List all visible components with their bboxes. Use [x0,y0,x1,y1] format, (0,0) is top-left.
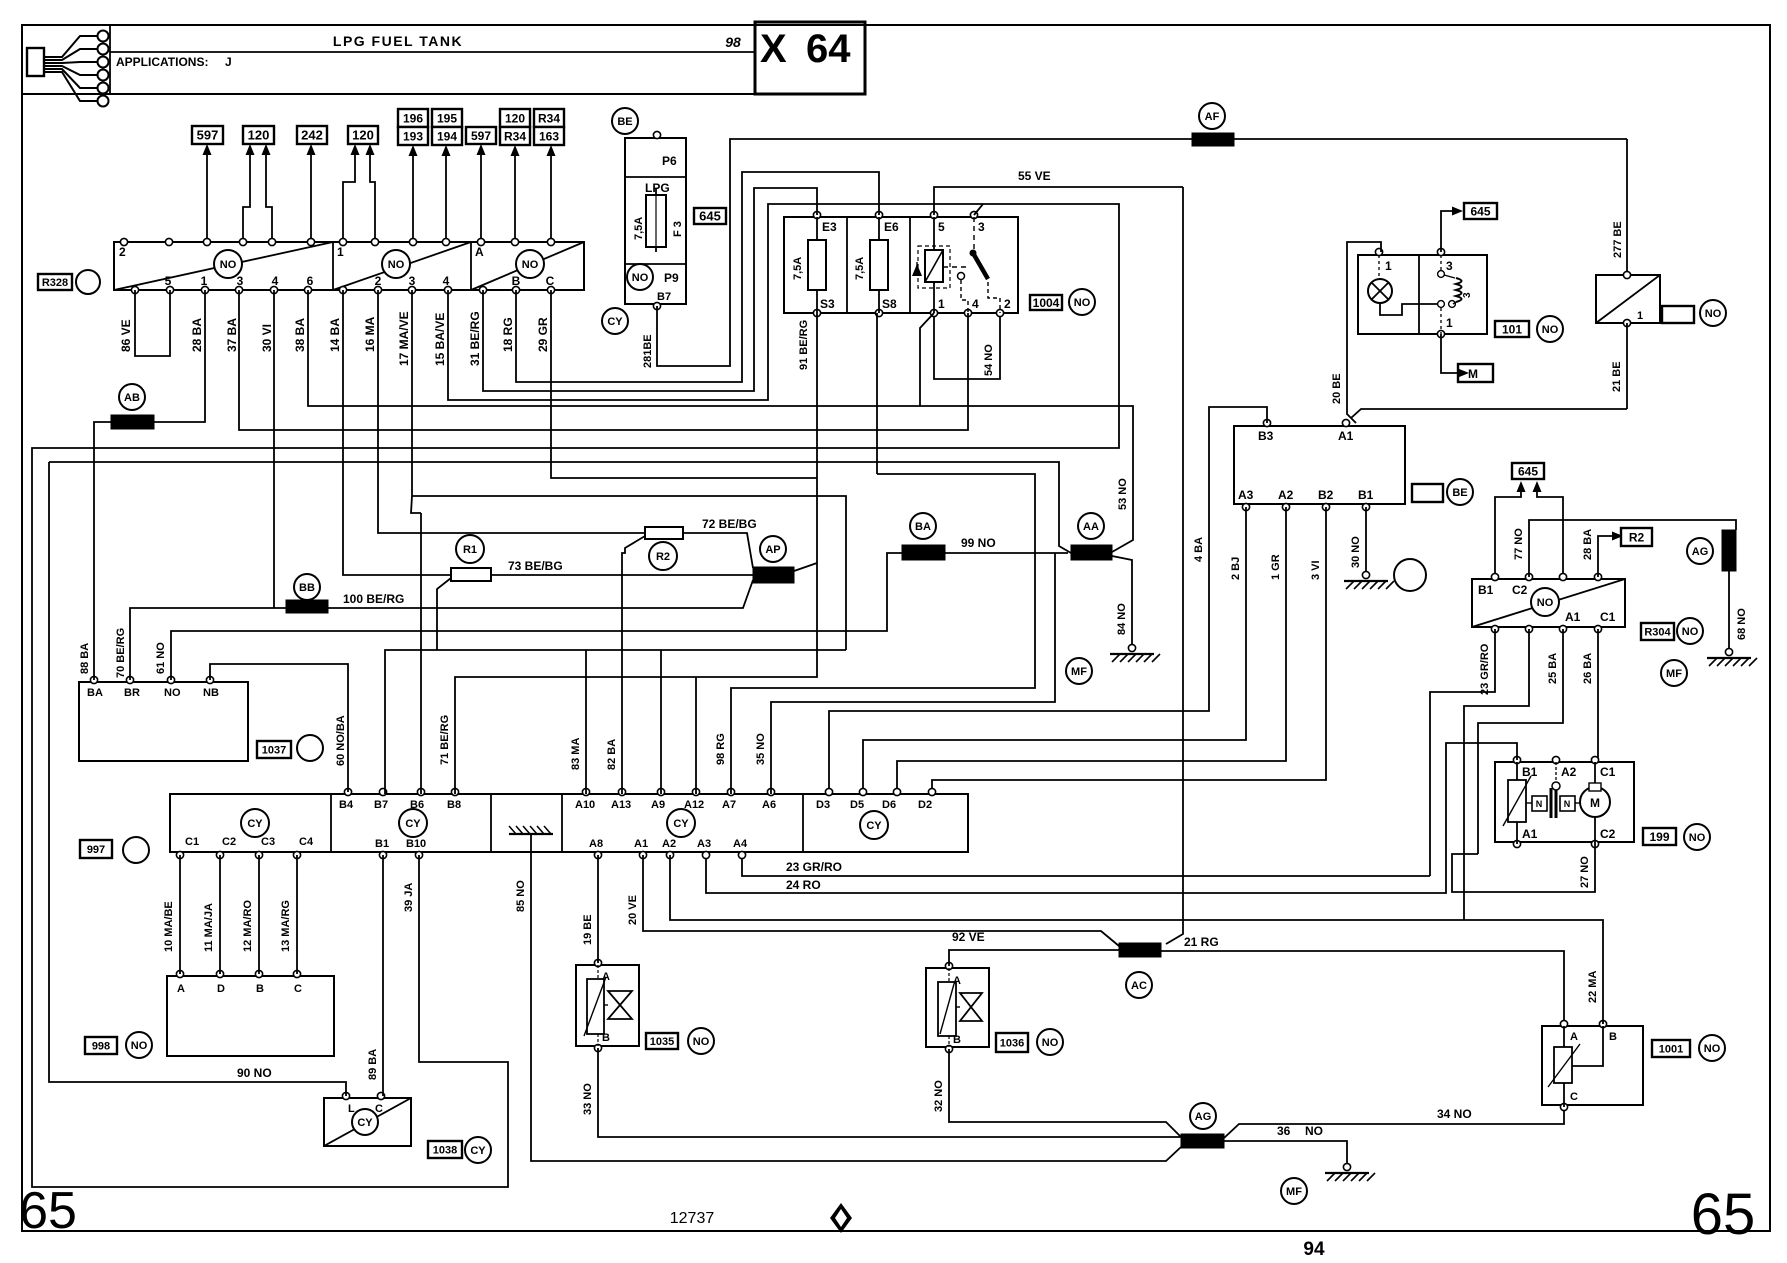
symbol circle CY [667,809,695,837]
wire [44,36,97,57]
symbol circle NO [1537,316,1563,342]
svg-text:27 NO: 27 NO [1579,856,1591,888]
svg-text:12737: 12737 [670,1210,715,1227]
svg-text:A3: A3 [697,838,711,850]
symbol circle NO [627,264,653,290]
svg-text:92 VE: 92 VE [952,930,985,944]
svg-text:N: N [1536,799,1543,809]
pin [825,788,832,795]
svg-text:A4: A4 [733,838,748,850]
symbol circle AF [1199,103,1225,129]
wire 23 GR/RO drop [1430,629,1495,876]
symbol circle BE [1447,479,1473,505]
svg-text:C1: C1 [1600,765,1616,779]
ground [1362,571,1369,578]
svg-text:60 NO/BA: 60 NO/BA [335,715,347,766]
svg-text:B4: B4 [339,799,354,811]
svg-text:B3: B3 [1258,429,1274,443]
svg-text:83 MA: 83 MA [570,738,582,770]
wire segment [816,217,818,240]
wire B7 to bus [385,650,846,794]
svg-text:1: 1 [337,245,344,259]
arrow [262,144,271,155]
pin [1375,248,1382,255]
pin [618,788,625,795]
pin [1560,1103,1567,1110]
pin [653,131,660,138]
svg-text:120: 120 [505,111,525,125]
svg-text:B7: B7 [374,799,388,811]
wire [670,855,1603,1024]
svg-text:AF: AF [1205,111,1220,123]
wire [742,855,1430,876]
box [114,242,584,290]
wire [731,474,1035,794]
svg-text:AB: AB [124,392,140,404]
ref box 193 [398,127,428,145]
pin [767,788,774,795]
svg-text:64: 64 [806,27,851,71]
svg-text:AG: AG [1195,1111,1212,1123]
pin [1525,573,1532,580]
wire [897,507,1286,794]
svg-text:82 BA: 82 BA [606,739,618,770]
wire segment [179,855,181,974]
pin [1559,625,1566,632]
wire A12 [695,677,697,794]
svg-text:100 BE/RG: 100 BE/RG [343,592,404,606]
symbol circle NO [214,250,242,278]
ref box 199 [1643,828,1676,845]
svg-text:B6: B6 [410,799,424,811]
wire [1598,536,1612,577]
svg-text:61 NO: 61 NO [155,642,167,674]
svg-text:13 MA/RG: 13 MA/RG [280,900,292,952]
svg-text:65: 65 [19,1182,77,1240]
pin [1594,573,1601,580]
svg-text:A8: A8 [589,838,603,850]
arrow [307,144,316,155]
svg-text:B10: B10 [406,838,426,850]
svg-text:B8: B8 [447,799,461,811]
ref box R328 [38,274,72,290]
circle MF [1661,660,1687,686]
wire [308,290,1133,552]
pin [594,851,601,858]
motor M inside 199 [1580,787,1610,817]
symbol circle BA [910,513,936,539]
svg-text:72 BE/BG: 72 BE/BG [702,517,757,531]
wire segment [110,51,755,53]
svg-text:23 GR/RO: 23 GR/RO [786,860,842,874]
wire [411,496,421,513]
svg-text:4 BA: 4 BA [1193,537,1205,562]
svg-text:LPG FUEL TANK: LPG FUEL TANK [333,33,463,49]
shielding [1722,530,1736,571]
wire [448,204,983,400]
arrow [366,144,375,155]
wire segment [925,250,943,282]
svg-text:120: 120 [248,128,270,143]
wire [483,188,817,391]
pin [666,851,673,858]
ref box R34 [534,109,564,127]
svg-text:28 BA: 28 BA [1582,529,1594,560]
svg-text:5: 5 [938,220,945,234]
pin [1342,419,1349,426]
wire segment [412,153,414,242]
wire [210,664,348,792]
svg-text:E6: E6 [884,220,899,234]
pin [702,851,709,858]
pin [374,286,381,293]
box [1542,1026,1643,1105]
lamp symbol [1368,279,1392,303]
box [587,979,604,1034]
wire [343,152,355,242]
svg-text:C3: C3 [261,836,275,848]
pin [1491,573,1498,580]
symbol circle AP [760,536,786,562]
svg-text:98: 98 [725,34,741,50]
ref box 645 [694,208,726,224]
pin [90,676,97,683]
svg-text:28 BA: 28 BA [190,318,204,352]
symbol circle R2 [649,542,677,570]
wire [44,66,97,75]
wire [44,62,97,63]
svg-text:AA: AA [1083,521,1099,533]
svg-text:32 NO: 32 NO [933,1080,945,1112]
svg-text:NO: NO [632,272,649,284]
svg-text:C: C [375,1103,383,1115]
wire [243,152,250,242]
svg-text:19 BE: 19 BE [582,914,594,945]
wire segment [109,25,111,94]
symbol circle NO [688,1028,714,1054]
svg-text:R328: R328 [42,277,68,289]
svg-text:NO: NO [1305,1124,1323,1138]
wire segment [206,152,208,242]
svg-text:3: 3 [1462,292,1473,298]
wire segment [1575,802,1581,804]
ref box 163 [534,127,564,145]
pin [293,851,300,858]
svg-text:281BE: 281BE [642,334,654,368]
box [755,22,865,94]
pin [653,302,660,309]
pin [408,286,415,293]
wire segment [584,977,606,1036]
arrow [246,144,255,155]
svg-text:199: 199 [1649,830,1669,844]
wire segment [258,855,260,974]
box [22,25,755,94]
circle MF bottom [1281,1178,1307,1204]
svg-text:2 BJ: 2 BJ [1230,557,1242,580]
wire segment [940,984,954,1034]
svg-text:NO: NO [1705,308,1722,320]
pin [996,309,1003,316]
arrow [1533,481,1542,492]
svg-text:645: 645 [1518,464,1538,478]
svg-text:R1: R1 [463,544,477,556]
box [646,195,666,247]
pin [216,851,223,858]
svg-text:A1: A1 [634,838,648,850]
svg-text:BE: BE [1452,487,1467,499]
box [870,240,888,290]
wire segment [916,262,918,276]
svg-text:APPLICATIONS:: APPLICATIONS: [116,55,208,69]
symbol circle CY [241,809,269,837]
svg-text:D: D [217,983,225,995]
box [938,982,956,1036]
box [1560,796,1575,811]
svg-text:A: A [475,245,484,259]
svg-text:P6: P6 [662,154,677,168]
svg-text:30 VI: 30 VI [260,324,274,352]
wire segment [219,855,221,974]
svg-text:1004: 1004 [1033,296,1060,310]
box [645,527,683,539]
svg-text:33 NO: 33 NO [582,1083,594,1115]
svg-text:1035: 1035 [650,1036,674,1048]
svg-text:21 RG: 21 RG [1184,935,1219,949]
arrow [511,145,520,156]
svg-text:D3: D3 [816,799,830,811]
wire segment [1440,308,1442,334]
wire segment [514,153,516,242]
svg-text:23 GR/RO: 23 GR/RO [1479,643,1491,695]
wire [49,462,346,1096]
wire segment [1548,1044,1580,1087]
svg-text:53 NO: 53 NO [1117,478,1129,510]
box [1472,579,1625,627]
wire [1380,303,1437,315]
pin [206,676,213,683]
box [1554,1047,1572,1083]
svg-text:NO: NO [1074,297,1091,309]
wire [1161,951,1564,1024]
svg-text:30 NO: 30 NO [1350,536,1362,568]
svg-text:A: A [177,983,185,995]
svg-text:85 NO: 85 NO [515,880,527,912]
pin [339,238,346,245]
svg-text:120: 120 [352,128,374,143]
pin [304,286,311,293]
internal ground in strip [509,833,553,835]
svg-text:15 BA/VE: 15 BA/VE [433,313,447,366]
pin [813,309,820,316]
svg-text:18 RG: 18 RG [501,317,515,352]
svg-text:N: N [1564,799,1571,809]
pin [970,211,977,218]
wire segment [1372,283,1388,299]
wire B6 [420,513,422,794]
wire segment [1503,776,1531,826]
svg-text:26 BA: 26 BA [1582,653,1594,684]
svg-text:38 BA: 38 BA [293,318,307,352]
ref box 645 [1512,463,1544,479]
wire segment [948,1036,950,1047]
wire [1452,844,1595,892]
pin [415,851,422,858]
svg-text:A1: A1 [1338,429,1354,443]
pin [1282,503,1289,510]
svg-text:B1: B1 [1358,488,1374,502]
wire [239,290,968,430]
wire [622,536,645,794]
pin [727,788,734,795]
wire segment [846,217,848,313]
wire A9 [660,650,662,794]
svg-text:B: B [256,983,264,995]
pin [1623,271,1630,278]
svg-text:A6: A6 [762,799,776,811]
symbol circle AG [1687,538,1713,564]
svg-text:A2: A2 [662,838,676,850]
wire [328,580,753,608]
svg-text:77 NO: 77 NO [1513,528,1525,560]
svg-text:NO: NO [1682,626,1699,638]
pin [875,211,882,218]
wire segment [490,794,492,852]
arrow [477,144,486,155]
wire [657,139,1192,366]
wire [44,69,97,88]
wire [412,290,846,650]
svg-text:C2: C2 [222,836,236,848]
switch blade [973,253,988,279]
svg-text:1: 1 [938,297,945,311]
shielding [1071,545,1112,560]
symbol circle AC [1126,972,1152,998]
svg-text:B7: B7 [657,291,671,303]
pin [344,788,351,795]
wire [378,290,645,533]
ref box 194 [432,127,462,145]
box [1412,484,1443,502]
box [625,138,686,304]
pin [1559,573,1566,580]
svg-text:LPG: LPG [645,181,670,195]
svg-text:M: M [1590,796,1600,810]
box [1508,780,1526,822]
svg-text:BA: BA [87,687,103,699]
pin [239,238,246,245]
wire [516,172,879,382]
svg-text:7,5A: 7,5A [792,257,804,280]
wire segment [1594,817,1596,844]
svg-text:31 BE/RG: 31 BE/RG [468,311,482,366]
wire AF to 277BE [1234,138,1627,140]
ref box 195 [432,109,462,127]
svg-text:242: 242 [301,128,323,143]
wire segment [1550,788,1553,818]
svg-text:A13: A13 [611,799,631,811]
box [1589,783,1601,791]
arrow [442,145,451,156]
svg-text:21 BE: 21 BE [1611,361,1623,392]
svg-text:NB: NB [203,687,219,699]
symbol circle CY [465,1137,491,1163]
svg-text:91 BE/RG: 91 BE/RG [798,320,810,370]
wire [1529,520,1736,577]
wire segment [550,153,552,242]
ref box 1004 [1030,295,1062,310]
shielding [902,545,945,560]
svg-text:2: 2 [1004,297,1011,311]
svg-text:4: 4 [972,297,979,311]
svg-text:20 VE: 20 VE [627,895,639,925]
wire segment [445,153,447,242]
svg-text:C4: C4 [299,836,314,848]
wire segment [878,217,880,240]
wire [598,1048,1181,1137]
svg-text:A: A [1570,1031,1578,1043]
wire [934,316,1000,379]
symbol circle CY [399,809,427,837]
svg-text:88 BA: 88 BA [79,643,91,674]
box [1662,306,1694,323]
svg-text:B1: B1 [1478,583,1494,597]
wire segment [310,152,312,242]
ref box 1036 [996,1033,1028,1052]
wire [171,553,902,680]
wire [154,290,205,422]
ref box 120 [500,109,530,127]
wire [1112,556,1132,645]
pin [379,788,386,795]
circle BE [612,108,638,134]
wire segment [1372,283,1388,299]
pin [1242,503,1249,510]
wire segment [655,195,657,247]
pin [594,1044,601,1051]
svg-text:25 BA: 25 BA [1547,653,1559,684]
wire segment [470,242,472,290]
wire segment [561,794,563,852]
svg-text:54 NO: 54 NO [983,344,995,376]
wire segment [604,1004,608,1006]
symbol circle AG [1190,1103,1216,1129]
svg-text:196: 196 [403,111,423,125]
box [1495,762,1634,842]
svg-text:C1: C1 [1600,610,1616,624]
symbol circle NO [1700,300,1726,326]
svg-text:84 NO: 84 NO [1116,603,1128,635]
pin [964,309,971,316]
wire segment [1418,255,1420,334]
svg-text:MF: MF [1071,666,1087,678]
svg-text:NO: NO [131,1040,148,1052]
pin [1362,503,1369,510]
symbol circle NO [382,250,410,278]
shielding [286,600,328,613]
svg-text:S3: S3 [820,297,835,311]
svg-text:65: 65 [1691,1182,1756,1247]
R1 left lead down [437,578,451,650]
pin [216,970,223,977]
wire [1224,1107,1564,1138]
box [784,217,1018,313]
ref box 597 [192,126,223,144]
svg-text:101: 101 [1502,322,1522,336]
svg-text:193: 193 [403,129,423,143]
svg-text:CY: CY [866,820,882,832]
wire segment [1440,255,1442,270]
